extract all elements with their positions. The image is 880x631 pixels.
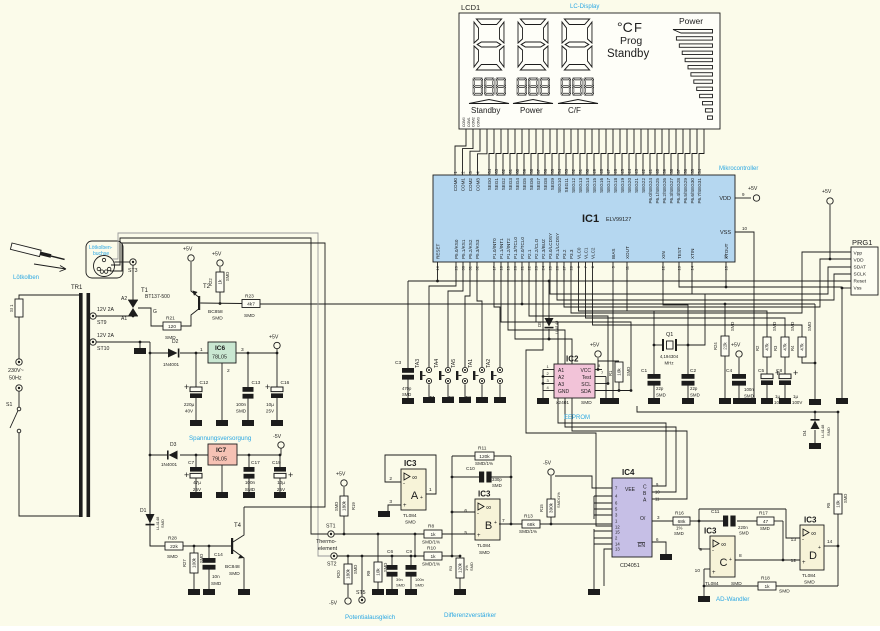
svg-text:59: 59 [522, 168, 527, 173]
svg-text:1µ: 1µ [793, 394, 798, 399]
svg-text:R18: R18 [761, 576, 770, 582]
svg-text:VLC1: VLC1 [583, 247, 588, 259]
svg-text:R17: R17 [759, 511, 768, 517]
svg-text:SMD/1%: SMD/1% [556, 492, 561, 508]
svg-text:SMD: SMD [353, 565, 358, 574]
svg-text:SEG14: SEG14 [585, 178, 590, 193]
svg-text:COM1: COM1 [460, 178, 465, 192]
svg-text:47µ: 47µ [193, 480, 201, 485]
svg-text:SEG4: SEG4 [515, 178, 520, 191]
svg-text:VLC2: VLC2 [590, 247, 595, 259]
svg-text:AD-Wandler: AD-Wandler [716, 596, 749, 603]
svg-text:40: 40 [655, 168, 660, 173]
svg-text:37: 37 [676, 168, 681, 173]
svg-text:P5.1/KS1: P5.1/KS1 [461, 239, 466, 259]
svg-text:22p: 22p [656, 386, 664, 391]
svg-text:SEG2: SEG2 [501, 178, 506, 191]
svg-text:-: - [477, 511, 479, 517]
svg-text:C5: C5 [758, 368, 764, 374]
svg-text:55: 55 [550, 168, 555, 173]
svg-text:-: - [712, 548, 714, 554]
svg-text:SMD: SMD [244, 313, 255, 319]
svg-text:R2: R2 [755, 345, 760, 351]
svg-text:+: + [403, 503, 407, 509]
svg-text:-: - [802, 537, 804, 543]
svg-text:50: 50 [585, 168, 590, 173]
svg-text:SMD: SMD [236, 409, 247, 414]
svg-text:C10: C10 [466, 466, 475, 472]
svg-text:Test: Test [582, 375, 592, 381]
svg-text:SEG17: SEG17 [606, 178, 611, 193]
svg-text:T4: T4 [234, 523, 242, 529]
svg-text:1k: 1k [764, 584, 770, 590]
svg-text:TL084: TL084 [802, 573, 816, 579]
svg-text:C12: C12 [200, 380, 209, 386]
svg-text:BC848: BC848 [225, 564, 240, 570]
svg-text:1%: 1% [676, 526, 682, 531]
svg-text:38: 38 [669, 168, 674, 173]
svg-text:x2401: x2401 [556, 400, 569, 406]
svg-text:1N4001: 1N4001 [161, 462, 178, 467]
svg-text:C/F: C/F [568, 106, 581, 115]
svg-text:Power: Power [520, 106, 543, 115]
svg-text:+: + [793, 368, 798, 378]
svg-text:XTIN: XTIN [690, 249, 695, 259]
svg-text:C: C [720, 557, 728, 569]
svg-text:330p: 330p [492, 477, 502, 482]
svg-text:+: + [712, 570, 716, 576]
svg-text:Reset: Reset [854, 279, 867, 285]
svg-text:SMD: SMD [402, 392, 411, 397]
svg-text:XOUT: XOUT [625, 246, 630, 259]
svg-text:Thermo-: Thermo- [316, 539, 337, 545]
svg-text:Lötkolben: Lötkolben [13, 275, 39, 281]
svg-text:-5V: -5V [273, 434, 282, 440]
svg-text:T1: T1 [429, 396, 435, 402]
svg-text:220µ: 220µ [184, 402, 195, 407]
svg-text:25V: 25V [266, 409, 275, 414]
svg-text:Mikrocontroller: Mikrocontroller [719, 166, 758, 172]
svg-text:3: 3 [241, 347, 244, 353]
svg-text:R8: R8 [428, 524, 434, 530]
svg-text:SDAT: SDAT [854, 265, 867, 271]
svg-text:TEST: TEST [677, 247, 682, 259]
svg-text:C4: C4 [726, 368, 732, 374]
svg-text:R4: R4 [790, 345, 795, 351]
svg-text:°C: °C [617, 19, 633, 35]
svg-text:SMD: SMD [656, 393, 666, 398]
svg-text:+: + [184, 382, 189, 392]
svg-text:SMD: SMD [807, 322, 812, 331]
svg-text:47k: 47k [783, 343, 788, 351]
svg-text:SEG3: SEG3 [508, 178, 513, 191]
svg-text:VEE: VEE [625, 487, 636, 493]
svg-text:TA3: TA3 [415, 359, 421, 368]
svg-text:+: + [494, 520, 497, 526]
svg-text:C8: C8 [776, 368, 782, 374]
svg-text:SMD: SMD [581, 400, 592, 406]
svg-text:P1.3/TCL0: P1.3/TCL0 [513, 237, 518, 259]
svg-text:TR1: TR1 [71, 285, 83, 291]
svg-text:P6.2/SEG26: P6.2/SEG26 [662, 178, 667, 204]
svg-text:R9: R9 [366, 570, 371, 576]
svg-text:P5.3/KS3: P5.3/KS3 [475, 239, 480, 259]
svg-text:element: element [318, 546, 338, 552]
svg-text:P6.6/SEG30: P6.6/SEG30 [690, 178, 695, 204]
svg-text:120k: 120k [479, 454, 490, 460]
svg-text:SEG0: SEG0 [487, 178, 492, 191]
svg-text:+5V: +5V [748, 186, 758, 192]
svg-text:VCC: VCC [580, 368, 591, 374]
svg-text:10µ: 10µ [277, 480, 285, 485]
svg-text:D2: D2 [172, 339, 179, 345]
svg-text:SEG12: SEG12 [571, 178, 576, 193]
svg-text:SEG1: SEG1 [494, 178, 499, 191]
svg-text:C11: C11 [711, 509, 720, 515]
svg-text:+5V: +5V [269, 335, 279, 341]
svg-text:SMD: SMD [405, 520, 416, 526]
svg-text:230V~: 230V~ [8, 368, 24, 374]
svg-text:SMD: SMD [674, 531, 684, 536]
svg-text:R16: R16 [675, 511, 684, 517]
svg-text:48: 48 [599, 168, 604, 173]
svg-text:SEG19: SEG19 [620, 178, 625, 193]
svg-text:ST1: ST1 [326, 524, 336, 530]
svg-text:180k: 180k [342, 500, 347, 511]
svg-text:BC858: BC858 [208, 309, 223, 315]
svg-text:SMD: SMD [804, 580, 815, 586]
svg-text:SEG21: SEG21 [634, 178, 639, 193]
svg-text:5: 5 [464, 530, 467, 536]
svg-text:P3.3: P3.3 [569, 249, 574, 259]
svg-text:ST5: ST5 [356, 590, 366, 596]
svg-text:SI 1: SI 1 [9, 304, 14, 312]
svg-text:R1: R1 [608, 370, 613, 376]
svg-text:IC2: IC2 [566, 355, 579, 364]
svg-text:D1: D1 [140, 508, 147, 514]
svg-text:52: 52 [571, 168, 576, 173]
svg-text:COM2: COM2 [472, 117, 476, 127]
svg-text:42: 42 [641, 168, 646, 173]
svg-text:10k: 10k [617, 368, 622, 376]
svg-text:SDA: SDA [581, 389, 592, 395]
svg-text:47: 47 [606, 168, 611, 173]
svg-text:47k: 47k [765, 343, 770, 351]
svg-text:COM0: COM0 [453, 178, 458, 192]
svg-text:P2.2/CLO: P2.2/CLO [534, 238, 539, 259]
svg-text:O/: O/ [640, 516, 646, 522]
svg-text:47k: 47k [800, 343, 805, 351]
svg-text:LC-Display: LC-Display [570, 4, 599, 10]
svg-text:1: 1 [429, 487, 432, 493]
svg-text:C19: C19 [272, 460, 281, 466]
svg-text:22k: 22k [170, 544, 178, 550]
svg-text:Standby: Standby [607, 48, 649, 60]
svg-text:R27: R27 [182, 559, 187, 567]
svg-text:3: 3 [389, 499, 392, 505]
svg-text:P1.1/INT1: P1.1/INT1 [499, 238, 504, 259]
svg-text:SMD/1%: SMD/1% [422, 562, 440, 567]
svg-text:EEPROM: EEPROM [564, 415, 590, 421]
svg-text:SMD: SMD [790, 322, 795, 331]
svg-text:SEG10: SEG10 [557, 178, 562, 193]
svg-text:10: 10 [695, 568, 701, 574]
svg-text:SMD: SMD [415, 583, 424, 588]
svg-text:-5V: -5V [329, 601, 338, 607]
svg-text:D: D [809, 550, 817, 562]
svg-text:13: 13 [615, 547, 620, 552]
svg-text:VLC0: VLC0 [576, 247, 581, 259]
svg-text:10: 10 [655, 490, 660, 495]
svg-text:120k: 120k [458, 562, 463, 573]
svg-text:SMD: SMD [334, 502, 339, 511]
svg-text:61: 61 [508, 168, 513, 173]
svg-text:390k: 390k [549, 502, 554, 513]
svg-text:A1: A1 [121, 316, 127, 322]
svg-text:SMD: SMD [744, 394, 754, 399]
svg-text:SMD: SMD [160, 519, 165, 528]
svg-text:R10: R10 [427, 546, 436, 552]
svg-text:50Hz: 50Hz [9, 376, 22, 382]
svg-text:∞: ∞ [412, 475, 417, 482]
svg-text:R20: R20 [336, 570, 341, 578]
svg-text:SMD: SMD [229, 571, 240, 577]
svg-text:ELV99127: ELV99127 [606, 217, 631, 223]
svg-text:SMD: SMD [730, 322, 735, 331]
svg-text:P6.5/SEG29: P6.5/SEG29 [683, 178, 688, 204]
svg-text:EN: EN [638, 543, 645, 549]
svg-text:SEG11: SEG11 [564, 178, 569, 193]
svg-text:SMD/1%: SMD/1% [519, 529, 537, 534]
svg-text:R13: R13 [524, 514, 533, 520]
svg-text:58: 58 [529, 168, 534, 173]
svg-text:MHz: MHz [664, 361, 673, 366]
svg-text:2: 2 [389, 476, 392, 482]
svg-text:C: C [643, 485, 647, 491]
svg-text:+: + [483, 396, 486, 402]
svg-text:68k: 68k [678, 519, 686, 525]
svg-text:TL084: TL084 [403, 513, 417, 519]
svg-text:1N4001: 1N4001 [163, 362, 180, 367]
svg-text:∞: ∞ [721, 542, 726, 549]
svg-text:P3.2: P3.2 [562, 249, 567, 259]
svg-text:COM3: COM3 [475, 178, 480, 192]
svg-text:49: 49 [592, 168, 597, 173]
svg-text:68k: 68k [527, 522, 535, 528]
svg-text:SMD: SMD [739, 531, 749, 536]
svg-text:SEG20: SEG20 [627, 178, 632, 193]
svg-text:51: 51 [578, 168, 583, 173]
svg-text:SMD/1%: SMD/1% [422, 540, 440, 545]
svg-text:S1: S1 [6, 402, 12, 408]
svg-text:60: 60 [515, 168, 520, 173]
svg-text:57: 57 [536, 168, 541, 173]
svg-text:2: 2 [227, 368, 230, 374]
svg-text:+5V: +5V [731, 343, 741, 349]
svg-text:15: 15 [615, 530, 620, 535]
svg-text:36: 36 [683, 168, 688, 173]
svg-text:C3: C3 [395, 360, 401, 366]
svg-text:T2: T2 [448, 396, 454, 402]
svg-text:IC4: IC4 [622, 468, 635, 477]
svg-text:+5V: +5V [336, 472, 346, 478]
svg-text:1k: 1k [430, 554, 436, 560]
svg-text:12: 12 [791, 558, 797, 564]
svg-text:D4: D4 [802, 430, 807, 436]
svg-text:100n: 100n [415, 577, 424, 582]
svg-text:470p: 470p [402, 386, 412, 391]
svg-text:10: 10 [742, 226, 748, 231]
svg-text:SMD: SMD [469, 562, 474, 571]
svg-text:R24: R24 [713, 342, 718, 350]
svg-text:SMD: SMD [245, 487, 256, 492]
svg-text:100V: 100V [792, 400, 802, 405]
svg-text:SEG18: SEG18 [613, 178, 618, 193]
svg-text:RESET: RESET [435, 243, 440, 259]
svg-text:Potentialausgleich: Potentialausgleich [345, 614, 396, 621]
svg-text:TA5: TA5 [451, 359, 457, 368]
svg-text:VDD: VDD [854, 258, 865, 264]
svg-text:25V: 25V [277, 487, 286, 492]
svg-text:220n: 220n [738, 525, 748, 530]
svg-text:SEG6: SEG6 [529, 178, 534, 191]
svg-text:+: + [729, 557, 732, 563]
svg-text:SMD: SMD [212, 316, 223, 322]
svg-text:Spannungsversorgung: Spannungsversorgung [189, 435, 252, 442]
svg-text:∞: ∞ [486, 505, 491, 512]
svg-text:4k7: 4k7 [247, 301, 255, 307]
svg-text:P2.1: P2.1 [527, 249, 532, 259]
svg-text:39n: 39n [396, 577, 403, 582]
svg-text:SEG5: SEG5 [522, 178, 527, 191]
svg-text:+: + [802, 560, 806, 566]
svg-text:R15: R15 [539, 504, 544, 512]
svg-text:C13: C13 [252, 380, 261, 386]
svg-text:Standby: Standby [471, 106, 500, 115]
svg-text:R3: R3 [448, 565, 453, 571]
svg-text:ST9: ST9 [97, 320, 107, 326]
svg-text:SEG7: SEG7 [536, 178, 541, 191]
svg-text:SMD: SMD [211, 581, 222, 586]
svg-text:44: 44 [627, 168, 632, 173]
svg-text:22k: 22k [723, 342, 728, 350]
svg-text:120: 120 [168, 324, 176, 330]
svg-text:IC3: IC3 [704, 527, 717, 536]
svg-text:25V: 25V [193, 487, 202, 492]
svg-text:+5V: +5V [590, 343, 600, 349]
svg-text:12V 2A: 12V 2A [97, 307, 115, 313]
svg-text:+: + [477, 533, 481, 539]
svg-text:C17: C17 [251, 460, 260, 466]
svg-text:Prog: Prog [620, 35, 642, 47]
svg-text:CD4051: CD4051 [620, 563, 640, 569]
svg-text:SMD: SMD [760, 526, 770, 531]
svg-text:R3: R3 [773, 345, 778, 351]
svg-text:F: F [634, 20, 642, 35]
svg-text:100n: 100n [245, 480, 256, 485]
svg-text:46: 46 [613, 168, 618, 173]
svg-text:R21: R21 [166, 316, 175, 322]
svg-text:47: 47 [763, 519, 769, 525]
svg-text:R23: R23 [245, 294, 254, 300]
svg-text:35: 35 [690, 168, 695, 173]
svg-text:45: 45 [620, 168, 625, 173]
svg-text:10n: 10n [212, 574, 220, 579]
svg-text:SEG9: SEG9 [550, 178, 555, 191]
svg-text:P5.0/KS0: P5.0/KS0 [454, 239, 459, 259]
svg-text:R11: R11 [478, 446, 487, 452]
svg-text:79L05: 79L05 [212, 457, 227, 463]
svg-text:P6.0/SEG24: P6.0/SEG24 [648, 178, 653, 204]
svg-text:G: G [153, 309, 157, 315]
svg-text:R28: R28 [168, 536, 177, 542]
svg-text:9: 9 [699, 547, 702, 553]
svg-text:IC6: IC6 [215, 345, 226, 352]
svg-text:SMD: SMD [772, 322, 777, 331]
svg-text:10k: 10k [376, 568, 381, 576]
svg-text:41: 41 [648, 168, 653, 173]
svg-text:SMD/1%: SMD/1% [475, 461, 493, 466]
svg-text:BT137-500: BT137-500 [145, 294, 170, 300]
svg-text:P2.0/TCL0: P2.0/TCL0 [520, 237, 525, 259]
svg-text:R19: R19 [351, 502, 356, 510]
svg-text:SEG13: SEG13 [578, 178, 583, 193]
svg-text:P2.3/BUZ: P2.3/BUZ [541, 239, 546, 259]
svg-text:6: 6 [464, 508, 467, 514]
svg-text:+5V: +5V [183, 247, 193, 253]
svg-text:4,194304: 4,194304 [660, 354, 679, 359]
svg-text:SMD: SMD [843, 494, 848, 503]
svg-text:39: 39 [662, 168, 667, 173]
svg-text:SCL: SCL [581, 382, 591, 388]
svg-text:+: + [184, 470, 189, 480]
svg-text:IC3: IC3 [404, 459, 417, 468]
svg-text:SMD: SMD [626, 367, 631, 376]
svg-text:-5V: -5V [543, 461, 552, 467]
svg-text:1k: 1k [430, 532, 436, 538]
svg-text:P3.0/LCDSY: P3.0/LCDSY [548, 233, 553, 259]
svg-text:13: 13 [791, 537, 797, 543]
svg-text:SMD: SMD [826, 427, 831, 436]
svg-text:TA2: TA2 [486, 359, 492, 368]
svg-text:-: - [403, 481, 405, 487]
svg-text:100n: 100n [236, 402, 247, 407]
svg-text:COM1: COM1 [467, 117, 471, 127]
svg-text:TL084: TL084 [477, 543, 491, 549]
svg-text:Differenzverstärker: Differenzverstärker [444, 612, 496, 619]
svg-text:P5.2/KS2: P5.2/KS2 [468, 239, 473, 259]
svg-text:COM2: COM2 [468, 178, 473, 192]
svg-text:A3: A3 [558, 382, 564, 388]
svg-text:SEG16: SEG16 [599, 178, 604, 193]
svg-text:C16: C16 [281, 380, 290, 386]
svg-text:12V 2A: 12V 2A [97, 333, 115, 339]
svg-text:22p: 22p [690, 386, 698, 391]
svg-text:100n: 100n [744, 387, 754, 392]
svg-text:SMD: SMD [492, 483, 502, 488]
svg-text:Vpp: Vpp [854, 251, 863, 257]
svg-text:A: A [411, 490, 419, 502]
svg-text:Power: Power [679, 16, 703, 26]
svg-text:C7: C7 [188, 460, 194, 466]
svg-text:IC7: IC7 [216, 447, 227, 454]
svg-text:C9: C9 [406, 549, 412, 555]
svg-text:43: 43 [634, 168, 639, 173]
svg-text:GND: GND [558, 389, 570, 395]
svg-text:SEG8: SEG8 [543, 178, 548, 191]
svg-text:C14: C14 [214, 552, 223, 558]
svg-text:+: + [265, 382, 270, 392]
